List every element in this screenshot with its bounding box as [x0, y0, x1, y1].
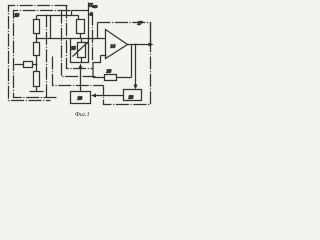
svg-text:Фиг.1: Фиг.1 [75, 112, 90, 118]
svg-text:13: 13 [15, 13, 20, 18]
resistor 4 (offset resistor) [77, 20, 85, 34]
wire: op-amp output [128, 44, 151, 46]
wire: upper link at y10 [72, 11, 89, 16]
ground terminal bar [30, 87, 44, 92]
wire: to feedback resistor 16 [93, 77, 105, 79]
resistor 16 (feedback) [105, 75, 117, 81]
wire: top supply rail y15 [37, 16, 79, 20]
dash-dot boundary segment, lower step [53, 57, 104, 86]
svg-text:18: 18 [129, 95, 134, 100]
dash-dot left edge of amplifier unit 17 [92, 13, 94, 61]
junction node at output branch [135, 44, 137, 46]
svg-text:14: 14 [111, 44, 116, 49]
svg-text:Uсм: Uсм [89, 3, 97, 9]
dash-dot boundary segment, middle (around rheostat unit) [62, 11, 97, 77]
block 19 [71, 92, 91, 104]
resistor R3 (bridge lower-left arm) [34, 72, 40, 87]
wire: block 18 to block 19 [95, 95, 124, 97]
wire: R2 to R3 [36, 56, 38, 72]
op-amp 14 [106, 30, 128, 59]
output arrowhead [149, 43, 154, 47]
arrowhead into block 19 [91, 94, 96, 98]
svg-text:17: 17 [138, 21, 143, 26]
junction node at bridge tap [36, 38, 38, 40]
dash-dot border of amplifier unit 17 [98, 23, 151, 105]
dash-dot boundary of outer left unit [9, 6, 68, 101]
wire: R1 to R2 [36, 34, 38, 43]
wire: resistor 16 to output riser [117, 45, 132, 78]
wire: block 19 drive to rheostat [80, 69, 82, 92]
junction node at R4 tap [36, 64, 38, 66]
resistor R2 (bridge left arm) [34, 43, 40, 56]
dash-dot right edge of bridge unit 13 [46, 15, 48, 98]
node Ucm: offset-voltage terminal wire [88, 3, 90, 39]
wire: feedback right riser [150, 23, 152, 45]
wire: resistor 4 bottom lead [80, 34, 82, 39]
arrowhead into block 18 [134, 85, 138, 90]
svg-text:19: 19 [78, 96, 83, 101]
rheostat 15 body [78, 43, 86, 58]
dash-dot boundary segment, inner (right of bridge) [67, 6, 93, 69]
junction node at rheostat branch [88, 38, 90, 40]
wire: non-inverting input path [93, 56, 107, 78]
dash-dot border of bridge unit 13 [14, 11, 71, 98]
resistor R1 (bridge top-left arm) [34, 20, 40, 34]
wire: inverting input riser [97, 23, 99, 39]
wire: R4 leads [15, 64, 37, 66]
svg-text:16: 16 [107, 69, 112, 74]
block 18 [124, 90, 142, 101]
thermo-compensation unit solid box [71, 39, 89, 63]
rheostat 15 arrowhead [85, 42, 88, 45]
arrowhead to rheostat unit [79, 64, 83, 69]
resistor R4 (horizontal bridge arm) [24, 62, 33, 68]
svg-text:15: 15 [71, 46, 76, 51]
rheostat 15 adjustment arrow [73, 42, 89, 57]
wire: output down to block 18 [135, 45, 137, 88]
wire: bridge output rail y38 to amplifier input [37, 38, 106, 40]
wire: bridge tap riser x50 [50, 16, 52, 39]
wire: rheostat 15 leads [81, 39, 83, 63]
